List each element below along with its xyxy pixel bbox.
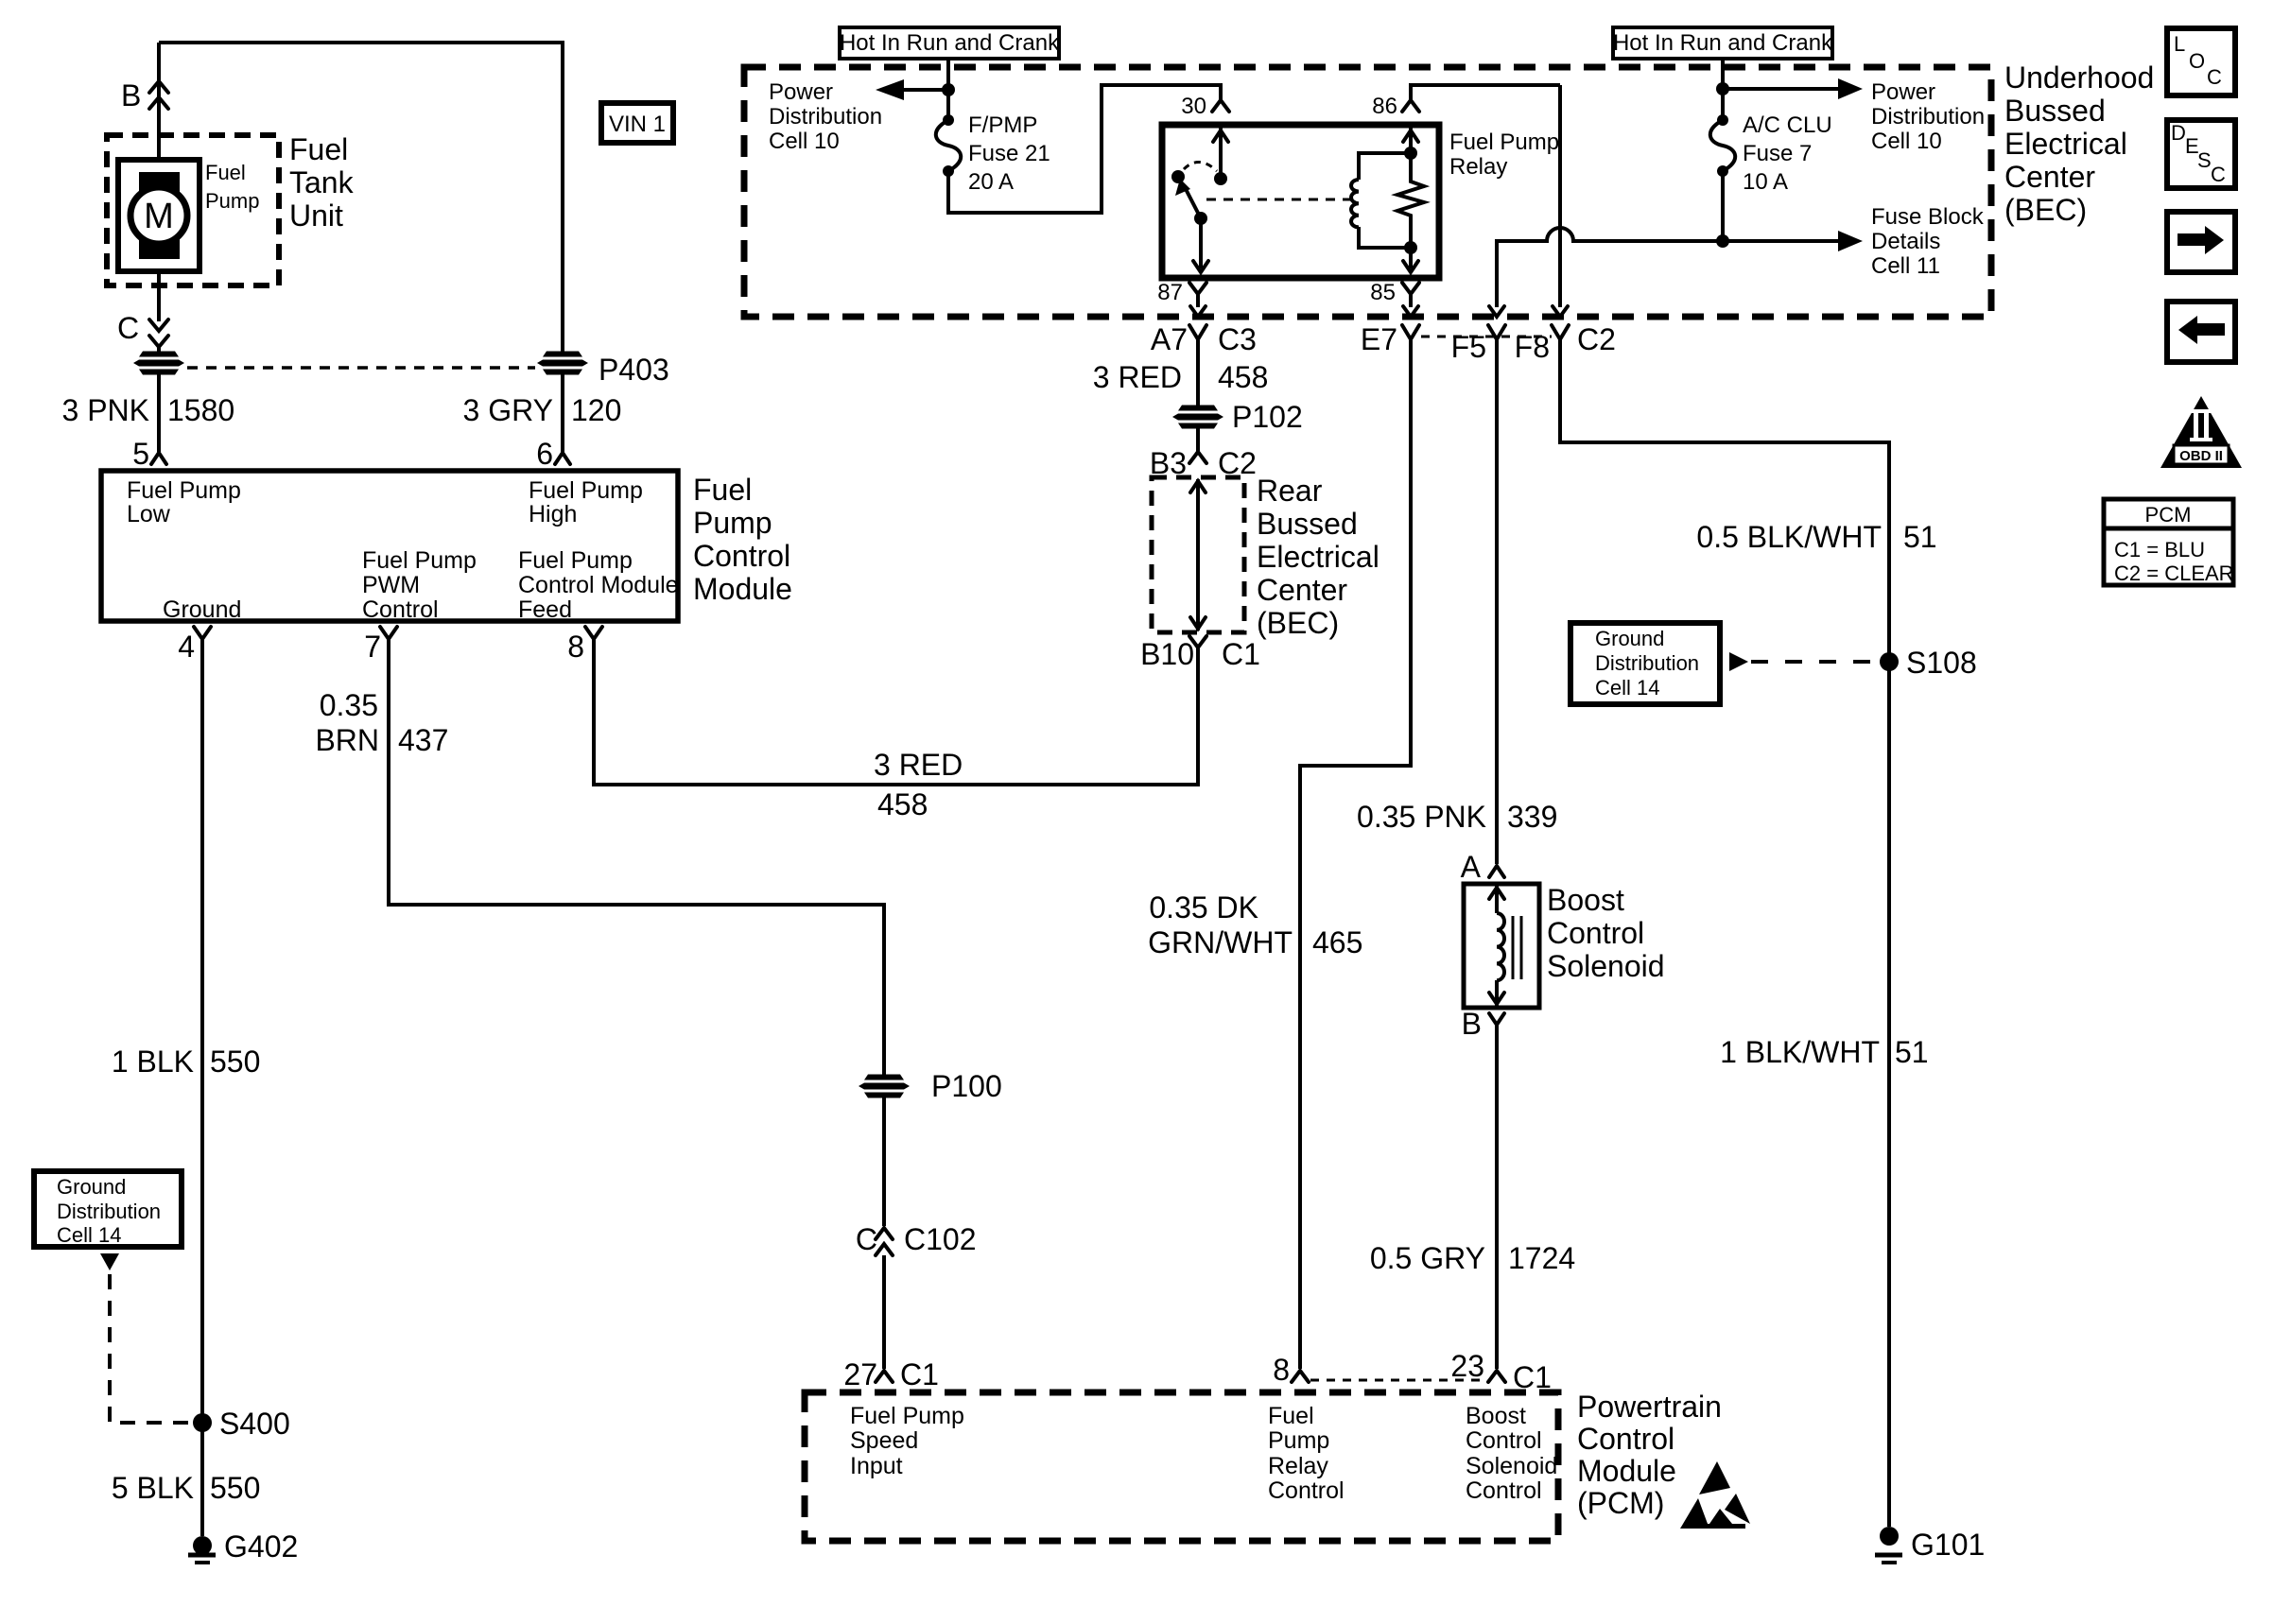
PCM connector legend box	[2104, 499, 2234, 585]
wire: E7 down, jog left, to PCM pin 8 (fuel pump relay control)	[1300, 339, 1411, 1369]
svg-text:Fuel: Fuel	[1268, 1403, 1314, 1429]
ESD warning symbol	[1680, 1461, 1750, 1529]
label 0.35 PNK 339	[1357, 800, 1557, 834]
svg-text:Fuse Block: Fuse Block	[1871, 204, 1985, 230]
dashed link to S108	[1751, 660, 1876, 664]
svg-text:85: 85	[1370, 280, 1396, 305]
arrowhead below ground distribution box	[100, 1253, 119, 1270]
svg-text:Center: Center	[2004, 160, 2095, 194]
svg-text:O: O	[2189, 49, 2205, 73]
svg-text:Cell 11: Cell 11	[1871, 253, 1940, 279]
label power distribution cell 10 (left)	[769, 79, 882, 154]
label 3 RED 458 (vertical run)	[1093, 360, 1269, 394]
svg-text:0.5 BLK/WHT: 0.5 BLK/WHT	[1696, 520, 1882, 554]
svg-text:M: M	[144, 197, 174, 236]
svg-text:Fuel Pump: Fuel Pump	[127, 477, 241, 504]
wire: pin 7 PWM control to P100/C102/pin27	[389, 639, 884, 1077]
svg-text:Cell 14: Cell 14	[1595, 676, 1659, 700]
svg-text:Control: Control	[362, 596, 439, 623]
relay switch arm	[1175, 179, 1201, 218]
pin 8	[567, 627, 602, 664]
svg-text:Module: Module	[693, 572, 792, 606]
label underhood bussed electrical center (BEC)	[2004, 60, 2154, 227]
svg-text:Input: Input	[850, 1453, 903, 1479]
svg-text:C: C	[2211, 163, 2226, 186]
svg-text:5 BLK: 5 BLK	[112, 1471, 194, 1505]
svg-text:Fuel Pump: Fuel Pump	[529, 477, 643, 504]
svg-text:0.35 DK: 0.35 DK	[1149, 890, 1258, 924]
svg-text:120: 120	[571, 393, 621, 427]
svg-text:Cell 10: Cell 10	[769, 129, 840, 154]
pin A boost solenoid	[1461, 850, 1504, 884]
svg-text:Power: Power	[1871, 79, 1935, 105]
wire: pin 86 feed from F8 branch	[1411, 85, 1560, 100]
svg-text:465: 465	[1312, 925, 1362, 959]
svg-text:C1 = BLU: C1 = BLU	[2114, 538, 2205, 561]
svg-text:PWM: PWM	[362, 572, 420, 598]
wire: boost solenoid B down to PCM pin 23, label 0.5 GRY 1724	[1495, 1025, 1499, 1369]
pin B3 of C2 (rear BEC)	[1150, 446, 1257, 480]
pin 5	[132, 437, 166, 471]
pin 4	[178, 627, 211, 664]
svg-text:B: B	[1462, 1007, 1482, 1041]
svg-text:Relay: Relay	[1449, 154, 1507, 180]
svg-text:550: 550	[210, 1471, 260, 1505]
svg-text:Feed: Feed	[518, 596, 572, 623]
svg-text:B: B	[121, 78, 141, 112]
node C label	[117, 311, 139, 345]
relay switch dashed arc	[1184, 162, 1217, 171]
connector chevrons at C (double caret down)	[149, 320, 168, 347]
relay pin 30	[1181, 94, 1229, 119]
label 1 BLK 550	[112, 1045, 261, 1079]
svg-text:Boost: Boost	[1466, 1403, 1526, 1429]
svg-text:Details: Details	[1871, 229, 1940, 254]
connector P100	[859, 1069, 1002, 1103]
ground G101	[1875, 1527, 1985, 1563]
svg-text:87: 87	[1157, 280, 1183, 305]
splice S108	[1880, 646, 1977, 680]
wire: C102 to PCM pin 27	[882, 1255, 886, 1369]
svg-text:Bussed: Bussed	[1257, 507, 1358, 541]
svg-text:550: 550	[210, 1045, 260, 1079]
fuel tank unit dashed box	[107, 135, 279, 285]
fuel pump box	[118, 160, 200, 271]
svg-text:Solenoid: Solenoid	[1466, 1453, 1557, 1479]
svg-text:Pump: Pump	[1268, 1427, 1329, 1454]
node B label	[121, 78, 141, 112]
pin B boost solenoid	[1462, 1007, 1504, 1041]
svg-text:1724: 1724	[1508, 1241, 1575, 1275]
svg-text:P403: P403	[599, 353, 669, 387]
svg-text:Ground: Ground	[1595, 627, 1664, 650]
label power distribution cell 10 (right)	[1871, 79, 1985, 154]
powertrain control module dashed box	[805, 1392, 1558, 1541]
svg-text:G402: G402	[224, 1529, 298, 1564]
svg-text:0.35: 0.35	[320, 688, 378, 722]
svg-text:G101: G101	[1911, 1528, 1985, 1562]
svg-text:BRN: BRN	[315, 723, 379, 757]
powertrain control module (PCM) name	[1577, 1390, 1722, 1520]
svg-text:C2 = CLEAR: C2 = CLEAR	[2114, 561, 2234, 585]
ground distribution cell 14 box (left)	[34, 1171, 182, 1247]
svg-text:Control: Control	[693, 539, 790, 573]
svg-text:L: L	[2174, 32, 2185, 56]
svg-text:Cell 14: Cell 14	[57, 1223, 121, 1247]
wire: A7 to P102, label 3 RED 458	[1196, 339, 1200, 407]
splice S400	[193, 1407, 290, 1441]
wire: motor bottom to C	[157, 271, 161, 321]
pin 7	[364, 627, 397, 664]
svg-text:Control: Control	[1466, 1427, 1542, 1454]
svg-text:458: 458	[877, 787, 928, 821]
svg-text:C: C	[117, 311, 139, 345]
DESC icon box	[2167, 120, 2235, 188]
connector row below BEC: thin dashed line	[1421, 336, 1552, 338]
LOC icon box	[2167, 28, 2235, 95]
fuel pump control module box	[101, 471, 678, 621]
svg-text:20 A: 20 A	[968, 169, 1014, 195]
svg-text:Fuel: Fuel	[289, 132, 348, 166]
svg-text:(BEC): (BEC)	[2004, 193, 2087, 227]
svg-text:Powertrain: Powertrain	[1577, 1390, 1722, 1424]
svg-text:7: 7	[364, 630, 381, 664]
svg-text:6: 6	[536, 437, 553, 471]
label boost control solenoid	[1547, 883, 1665, 983]
svg-text:Ground: Ground	[57, 1175, 126, 1199]
wire: C to inline connector	[157, 347, 161, 352]
fuse F/PMP fuse 21 20 A	[936, 112, 1050, 195]
label 5 BLK 550	[112, 1471, 261, 1505]
svg-text:Fuel Pump: Fuel Pump	[850, 1403, 964, 1429]
wire: P100 to C102	[882, 1097, 886, 1226]
svg-text:A: A	[1461, 850, 1482, 884]
wire: hot feed 2 down	[1721, 59, 1725, 118]
pin A7 of C3	[1151, 322, 1257, 356]
svg-text:Module: Module	[1577, 1454, 1676, 1488]
svg-text:PCM: PCM	[2145, 503, 2192, 527]
svg-text:A/C CLU: A/C CLU	[1743, 112, 1832, 138]
svg-text:Cell 10: Cell 10	[1871, 129, 1942, 154]
svg-text:Fuel: Fuel	[693, 473, 752, 507]
relay switch-to-coil dashed link	[1206, 199, 1352, 201]
label 3 PNK 1580	[62, 393, 235, 427]
label 3 RED 458 (horizontal run)	[874, 748, 963, 821]
VIN 1 box	[601, 103, 673, 143]
svg-text:86: 86	[1372, 94, 1397, 119]
pin 8 (PCM)	[1273, 1353, 1309, 1387]
svg-text:27: 27	[843, 1357, 877, 1391]
svg-text:Fuel: Fuel	[205, 161, 246, 184]
svg-text:VIN 1: VIN 1	[609, 112, 666, 137]
svg-text:P100: P100	[931, 1069, 1002, 1103]
wire: junction to F5 drop (hop over F8 wire)	[1489, 228, 1723, 317]
svg-text:Control: Control	[1268, 1477, 1345, 1504]
rear BEC dashed box	[1152, 477, 1244, 632]
svg-text:F/PMP: F/PMP	[968, 112, 1037, 138]
PCM pin labels	[850, 1403, 1557, 1504]
right arrow icon box	[2167, 212, 2235, 272]
svg-text:A7: A7	[1151, 322, 1188, 356]
svg-text:Solenoid: Solenoid	[1547, 949, 1665, 983]
svg-text:Power: Power	[769, 79, 833, 105]
svg-text:1 BLK/WHT: 1 BLK/WHT	[1720, 1035, 1880, 1069]
relay pin 87 below box	[1157, 280, 1206, 317]
label 0.35 DK GRN/WHT 465	[1148, 890, 1362, 959]
connector chevrons at B (double caret up)	[149, 81, 168, 109]
svg-text:Speed: Speed	[850, 1427, 918, 1454]
ground distribution cell 14 box (right)	[1570, 623, 1720, 704]
connector P403	[537, 352, 669, 388]
wire: F8 drop from pin 86 feed	[1553, 85, 1568, 317]
arrowhead from ground distribution box to S108	[1729, 652, 1748, 671]
svg-text:3 PNK: 3 PNK	[62, 393, 149, 427]
svg-text:F8: F8	[1515, 330, 1550, 364]
svg-text:4: 4	[178, 630, 195, 664]
svg-text:3 RED: 3 RED	[1093, 360, 1182, 394]
hot in run and crank box 1	[840, 27, 1060, 59]
pin 6	[536, 437, 570, 471]
arrow to fuse block details cell 11	[1723, 231, 1863, 251]
svg-text:1 BLK: 1 BLK	[112, 1045, 194, 1079]
ground G402	[188, 1529, 298, 1564]
rear BEC internal wire with arrows	[1190, 479, 1206, 631]
svg-text:OBD II: OBD II	[2179, 448, 2223, 464]
boost control solenoid box	[1464, 884, 1539, 1008]
svg-text:Distribution: Distribution	[1871, 104, 1985, 130]
wire: P102 to B3	[1196, 428, 1200, 452]
svg-text:Fuse 7: Fuse 7	[1743, 141, 1812, 166]
svg-text:Hot In Run and Crank: Hot In Run and Crank	[840, 30, 1060, 56]
svg-text:Distribution: Distribution	[57, 1200, 161, 1223]
label fuse block details cell 11	[1871, 204, 1985, 279]
svg-text:Distribution: Distribution	[769, 104, 882, 130]
wire: pin 4 ground 1 BLK 550 down to G402	[200, 639, 204, 1536]
svg-text:C102: C102	[904, 1222, 977, 1256]
svg-text:5: 5	[132, 437, 149, 471]
svg-text:Hot In Run and Crank: Hot In Run and Crank	[1613, 30, 1833, 56]
wire: F5 down to boost solenoid pin A, label 0.35 PNK 339	[1495, 339, 1499, 864]
svg-text:Pump: Pump	[693, 506, 772, 540]
svg-text:C1: C1	[1222, 637, 1260, 671]
wire: fuel pump B feed top loop (168,45)-(595,45)-(595,372)	[159, 43, 563, 352]
pin 23 of C1 (PCM)	[1450, 1349, 1552, 1394]
svg-text:0.5 GRY: 0.5 GRY	[1370, 1241, 1485, 1275]
svg-text:(BEC): (BEC)	[1257, 606, 1339, 640]
wire: hot feed 1 down	[946, 59, 950, 118]
pin E7 of C2	[1361, 322, 1419, 356]
connector P102	[1172, 400, 1303, 434]
thin dashed connector line between pins 8 and 23	[1310, 1379, 1486, 1382]
relay pin 85 below box	[1370, 280, 1419, 317]
label 0.5 GRY 1724	[1370, 1241, 1575, 1275]
svg-text:C2: C2	[1577, 322, 1616, 356]
svg-text:B10: B10	[1140, 637, 1194, 671]
dashed link to P403	[187, 366, 535, 370]
svg-text:P102: P102	[1232, 400, 1303, 434]
pin F5 of C2	[1451, 325, 1505, 364]
relay pin 30 internal contact	[1213, 127, 1228, 185]
junction dot hot feed 1	[942, 83, 955, 96]
fuse A/C CLU fuse 7 10 A	[1710, 112, 1832, 195]
svg-text:Tank: Tank	[289, 165, 355, 199]
svg-text:High: High	[529, 501, 577, 527]
wire: B10 down, 3 RED 458 horizontal to module pin 8	[594, 639, 1198, 785]
relay coil feed internal	[1403, 127, 1418, 160]
svg-text:Low: Low	[127, 501, 171, 527]
left arrow icon box	[2167, 302, 2235, 362]
svg-text:Control: Control	[1466, 1477, 1542, 1504]
relay switch pivot contact	[1171, 170, 1185, 183]
svg-text:C3: C3	[1218, 322, 1257, 356]
svg-text:8: 8	[567, 630, 584, 664]
svg-text:Control: Control	[1577, 1422, 1674, 1456]
relay coil resistor	[1397, 157, 1424, 248]
svg-text:458: 458	[1218, 360, 1268, 394]
svg-text:Relay: Relay	[1268, 1453, 1328, 1479]
fuel pump motor M	[130, 172, 187, 259]
svg-text:E7: E7	[1361, 322, 1397, 356]
svg-text:Fuel Pump: Fuel Pump	[518, 547, 633, 574]
svg-text:3 RED: 3 RED	[874, 748, 963, 782]
wire: F8 down, right, to S108/G101, label 0.5 BLK/WHT 51	[1560, 339, 1889, 1527]
svg-text:Electrical: Electrical	[2004, 127, 2127, 161]
svg-text:S108: S108	[1906, 646, 1977, 680]
svg-text:30: 30	[1181, 94, 1206, 119]
junction dot hot feed 2	[1716, 82, 1729, 95]
boost solenoid internal coil	[1489, 886, 1521, 1006]
connector C2 label	[1577, 322, 1616, 356]
wire: fuse 21 to relay pin 30	[948, 85, 1221, 213]
fuel tank unit label	[289, 132, 355, 233]
relay common contact and pin 87 stem	[1193, 212, 1208, 272]
label 3 GRY 120	[463, 393, 622, 427]
fuel pump relay label	[1449, 130, 1559, 180]
svg-text:Pump: Pump	[205, 189, 259, 213]
svg-text:Center: Center	[1257, 573, 1347, 607]
svg-text:1580: 1580	[167, 393, 234, 427]
svg-text:F5: F5	[1451, 330, 1486, 364]
svg-text:437: 437	[398, 723, 448, 757]
relay pin 86	[1372, 94, 1419, 119]
svg-text:D: D	[2171, 121, 2186, 145]
module pin labels	[127, 477, 679, 623]
OBD II symbol	[2160, 396, 2242, 468]
underhood BEC dashed box	[744, 67, 1991, 317]
junction dot fuse block feed	[1716, 234, 1729, 248]
svg-text:51: 51	[1903, 520, 1937, 554]
wire: 3 PNK 1580 (to pin 5)	[157, 374, 161, 452]
svg-text:Rear: Rear	[1257, 474, 1323, 508]
relay coil	[1351, 153, 1411, 248]
svg-text:Bussed: Bussed	[2004, 94, 2106, 128]
inline connector (left half of P403)	[133, 352, 184, 375]
svg-text:Fuel Pump: Fuel Pump	[1449, 130, 1559, 155]
wire: fuse 7 down to junction	[1721, 171, 1725, 241]
svg-text:339: 339	[1507, 800, 1557, 834]
svg-text:Distribution: Distribution	[1595, 651, 1699, 675]
svg-text:23: 23	[1450, 1349, 1484, 1383]
arrow to power distribution cell 10 (left)	[876, 79, 948, 100]
svg-text:Fuel Pump: Fuel Pump	[362, 547, 477, 574]
pin B10 of C1 (rear BEC)	[1140, 636, 1260, 671]
svg-text:Fuse 21: Fuse 21	[968, 141, 1050, 166]
svg-text:Boost: Boost	[1547, 883, 1624, 917]
svg-text:Unit: Unit	[289, 199, 343, 233]
fuel pump control module name	[693, 473, 792, 606]
hot in run and crank box 2	[1613, 27, 1833, 59]
svg-text:0.35 PNK: 0.35 PNK	[1357, 800, 1486, 834]
arrow to power distribution cell 10 (right)	[1723, 78, 1863, 99]
pin F8 of C2	[1515, 325, 1569, 364]
svg-text:10 A: 10 A	[1743, 169, 1788, 195]
svg-text:S400: S400	[219, 1407, 290, 1441]
svg-text:3 GRY: 3 GRY	[463, 393, 553, 427]
svg-text:GRN/WHT: GRN/WHT	[1148, 925, 1293, 959]
svg-text:S: S	[2197, 148, 2212, 172]
fuel pump label	[205, 161, 259, 213]
svg-text:(PCM): (PCM)	[1577, 1486, 1664, 1520]
label rear bussed electrical center (BEC)	[1257, 474, 1379, 640]
pin 27 of C1 (PCM)	[843, 1357, 939, 1391]
svg-text:Control Module: Control Module	[518, 572, 679, 598]
label 0.5 BLK/WHT 51	[1696, 520, 1936, 554]
connector C102 (node C)	[856, 1222, 977, 1256]
label 1 BLK/WHT 51	[1720, 1035, 1929, 1069]
relay coil bottom junction and pin 85 stem	[1403, 241, 1418, 272]
wire: 3 GRY 120 (to pin 6)	[561, 374, 564, 452]
svg-text:Underhood: Underhood	[2004, 60, 2154, 95]
svg-text:Electrical: Electrical	[1257, 540, 1379, 574]
svg-text:51: 51	[1895, 1035, 1929, 1069]
label 0.35 BRN 437	[315, 688, 448, 757]
dashed wire to S400	[110, 1274, 191, 1423]
svg-text:Control: Control	[1547, 916, 1644, 950]
fuel pump relay box	[1162, 125, 1439, 278]
svg-text:C1: C1	[900, 1357, 939, 1391]
svg-text:Ground: Ground	[163, 596, 241, 623]
svg-text:C: C	[2207, 65, 2222, 89]
svg-text:8: 8	[1273, 1353, 1290, 1387]
